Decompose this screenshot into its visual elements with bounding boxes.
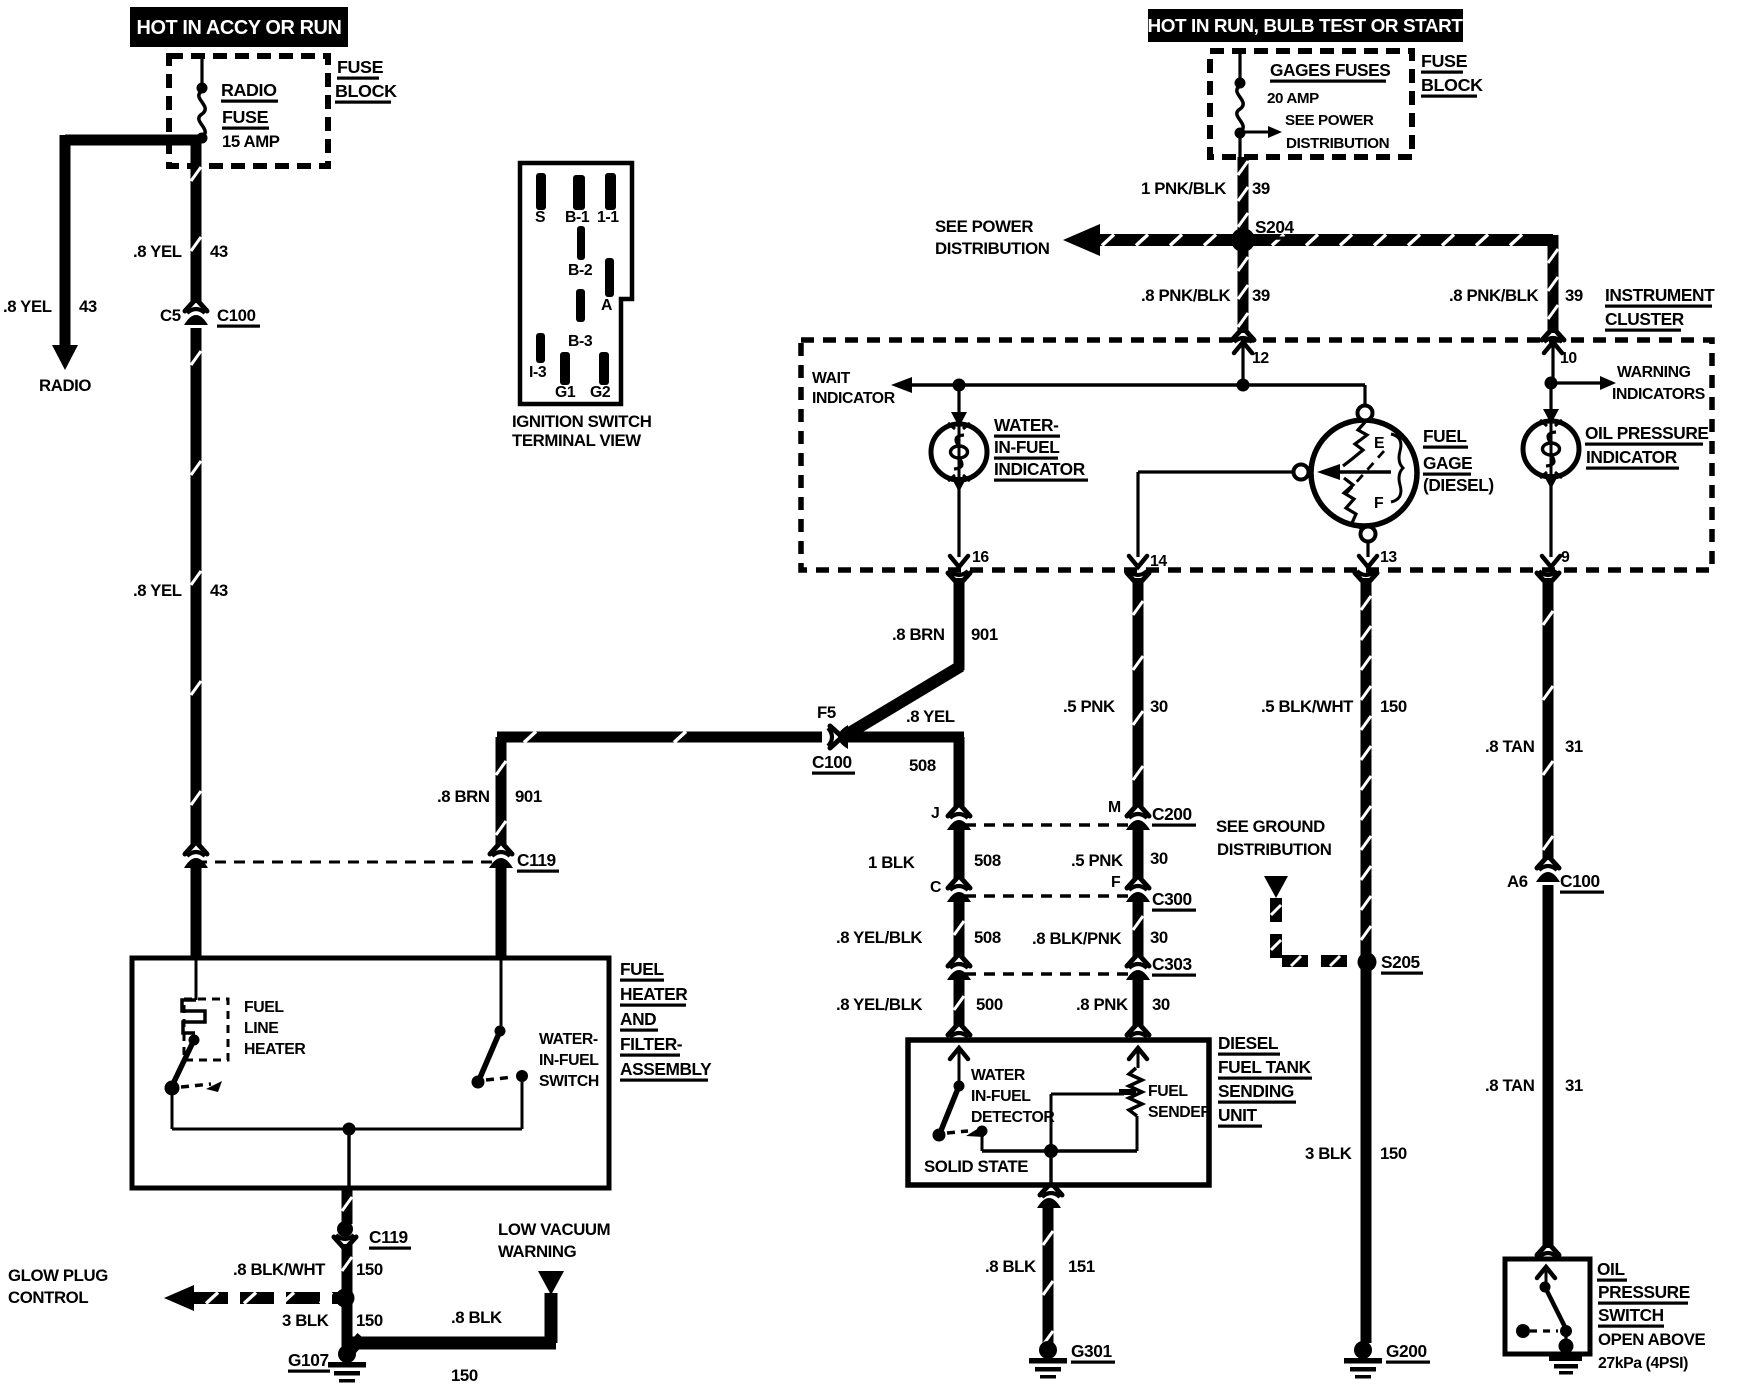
connector pin 10 at cluster (1542, 330, 1564, 340)
wire fuse feed (top) (200, 56, 203, 88)
wire oil lamp to pin 9 (1549, 477, 1552, 557)
svg-text:FUEL: FUEL (1423, 426, 1467, 446)
svg-text:LINE: LINE (244, 1020, 278, 1037)
dashed line C200 (965, 823, 1128, 826)
svg-text:500: 500 (976, 995, 1003, 1014)
svg-text:508: 508 (909, 756, 936, 775)
wire .8 BRN into heater box (496, 868, 507, 958)
svg-text:M: M (1108, 799, 1121, 816)
svg-text:SENDER: SENDER (1148, 1104, 1212, 1121)
wire 3 BLK 150 (right) (1361, 968, 1372, 1343)
svg-text:.8 BLK: .8 BLK (451, 1308, 502, 1327)
svg-text:WARNING: WARNING (1617, 364, 1691, 381)
svg-text:CONTROL: CONTROL (8, 1288, 88, 1307)
node rail-10 (1545, 377, 1558, 390)
svg-text:150: 150 (451, 1366, 478, 1385)
wire fuel gage bottom to pin 13 (1366, 541, 1369, 557)
arrow see ground distribution (1264, 876, 1288, 898)
svg-text:.8 BRN: .8 BRN (892, 625, 945, 644)
svg-text:30: 30 (1150, 849, 1168, 868)
svg-text:INDICATOR: INDICATOR (1586, 447, 1678, 467)
svg-text:30: 30 (1152, 995, 1170, 1014)
wire .8 BLK 150 (to low vacuum) (546, 1293, 557, 1338)
connector C119 left half (185, 844, 207, 854)
connector C119 (bottom) (337, 1221, 353, 1237)
svg-text:HEATER: HEATER (620, 984, 688, 1004)
svg-text:.5 BLK/WHT: .5 BLK/WHT (1261, 697, 1354, 716)
svg-text:IN-FUEL: IN-FUEL (994, 437, 1060, 457)
svg-text:43: 43 (210, 581, 228, 600)
svg-text:1-1: 1-1 (597, 209, 619, 226)
node heater bus junction (343, 1123, 356, 1136)
svg-text:F5: F5 (817, 703, 836, 722)
svg-text:1 PNK/BLK: 1 PNK/BLK (1141, 179, 1226, 198)
svg-text:WATER-: WATER- (994, 415, 1059, 435)
arrow warning indicators (1555, 381, 1602, 384)
svg-text:WARNING: WARNING (498, 1242, 577, 1261)
dashed line C300 (965, 894, 1128, 897)
svg-text:DISTRIBUTION: DISTRIBUTION (935, 239, 1050, 258)
svg-text:J: J (931, 805, 939, 822)
svg-text:(DIESEL): (DIESEL) (1423, 475, 1494, 495)
fuel sender resistor (1129, 1068, 1142, 1116)
svg-text:9: 9 (1561, 549, 1570, 566)
svg-text:FUEL: FUEL (244, 999, 284, 1016)
wire .8 PNK/BLK 39 (left drop) (1238, 246, 1249, 333)
switch arm (fuel line heater) (172, 1042, 193, 1086)
svg-text:LOW VACUUM: LOW VACUUM (498, 1220, 610, 1239)
connector C100 F5 inline (830, 726, 840, 748)
svg-text:C5: C5 (160, 306, 181, 325)
svg-text:SWITCH: SWITCH (1598, 1305, 1664, 1325)
ground (oil pressure switch) (1559, 1339, 1574, 1354)
svg-text:31: 31 (1565, 737, 1583, 756)
arrow wait indicator (891, 377, 912, 393)
splice glow plug (336, 1289, 355, 1308)
svg-text:1 BLK: 1 BLK (868, 853, 915, 872)
switch contact dashed (heater) (181, 1084, 211, 1087)
svg-text:G2: G2 (590, 384, 611, 401)
wire sender wiper loop (1050, 1094, 1053, 1151)
svg-text:SOLID STATE: SOLID STATE (924, 1157, 1028, 1176)
wire .8 BLK 151 (1043, 1206, 1054, 1343)
svg-text:C200: C200 (1152, 804, 1192, 824)
wire .8 BRN 901 (pin16 drop) (954, 578, 965, 670)
connector C5 C100 (185, 301, 207, 311)
wire cluster feed rail (905, 383, 1365, 386)
svg-text:C300: C300 (1152, 889, 1192, 909)
wire oil lamp drop (1549, 383, 1552, 421)
svg-text:FUEL: FUEL (1148, 1083, 1188, 1100)
wire heater box to C119 (342, 1188, 353, 1224)
wire lamp to pin 16 (957, 480, 960, 557)
header box HOT IN ACCY OR RUN (130, 7, 348, 47)
svg-text:.8 YEL: .8 YEL (133, 242, 182, 261)
svg-text:E: E (1374, 435, 1384, 452)
svg-text:BLOCK: BLOCK (1421, 75, 1483, 95)
switch contact dashed (water) (486, 1077, 513, 1080)
connector sending unit right entry (1127, 1025, 1149, 1035)
splice S205 (1358, 953, 1377, 972)
svg-text:HOT IN ACCY OR RUN: HOT IN ACCY OR RUN (137, 17, 342, 39)
node rail-12 (1237, 379, 1250, 392)
fuel gage bottom pin (1361, 527, 1376, 542)
svg-text:C100: C100 (812, 752, 852, 772)
svg-text:WATER: WATER (971, 1067, 1026, 1084)
wire water switch lead (500, 958, 503, 1030)
svg-text:DISTRIBUTION: DISTRIBUTION (1286, 135, 1389, 152)
node sending unit junction (1044, 1144, 1058, 1158)
connector pin 12 at cluster (1232, 330, 1254, 340)
svg-text:INDICATOR: INDICATOR (812, 390, 896, 407)
svg-text:C: C (930, 879, 941, 896)
fuel gage internals (1343, 421, 1367, 466)
svg-text:INDICATOR: INDICATOR (994, 459, 1086, 479)
svg-text:3 BLK: 3 BLK (282, 1311, 329, 1330)
svg-text:C100: C100 (1560, 871, 1600, 891)
svg-text:SWITCH: SWITCH (539, 1073, 599, 1090)
svg-text:150: 150 (1380, 1144, 1407, 1163)
wire junction to box bottom (1049, 1151, 1052, 1185)
fuel gage left pin (1294, 465, 1309, 480)
svg-text:16: 16 (972, 549, 989, 566)
svg-text:INDICATORS: INDICATORS (1612, 386, 1705, 403)
wire .8 BLK/PNK 30 (1133, 902, 1144, 956)
svg-text:.8 YEL/BLK: .8 YEL/BLK (836, 995, 922, 1014)
wire S204 bus (hatched) (1098, 234, 1553, 246)
svg-text:FUSE: FUSE (222, 107, 269, 127)
fuse block dashed box (radio fuse) (169, 56, 328, 166)
svg-text:PRESSURE: PRESSURE (1598, 1282, 1690, 1302)
svg-text:AND: AND (620, 1009, 656, 1029)
wire diagonal to C100 (846, 666, 961, 735)
svg-text:GLOW PLUG: GLOW PLUG (8, 1266, 108, 1285)
svg-text:G107: G107 (288, 1350, 329, 1370)
svg-text:I-3: I-3 (529, 364, 547, 381)
svg-text:30: 30 (1150, 697, 1168, 716)
svg-text:.8 TAN: .8 TAN (1485, 737, 1535, 756)
lamp OIL PRESSURE INDICATOR (1523, 421, 1579, 477)
svg-text:.8 PNK/BLK: .8 PNK/BLK (1141, 286, 1231, 305)
wire .8 TAN 31 upper (1543, 578, 1554, 860)
svg-text:BLOCK: BLOCK (335, 81, 397, 101)
wire 508 to J (848, 732, 964, 743)
connector F C300 (1127, 878, 1149, 888)
svg-text:G1: G1 (555, 384, 576, 401)
ground G107 (338, 1345, 356, 1363)
lamp WATER-IN-FUEL INDICATOR (931, 424, 987, 480)
connector J C200 (948, 806, 970, 816)
svg-text:WAIT: WAIT (812, 370, 851, 387)
svg-text:.8 YEL/BLK: .8 YEL/BLK (836, 928, 922, 947)
wire .5 PNK 30 upper (1133, 578, 1144, 806)
wire .5 PNK 30 mid (1133, 830, 1144, 878)
svg-text:A: A (601, 297, 612, 314)
svg-text:G200: G200 (1386, 1341, 1427, 1361)
svg-text:20 AMP: 20 AMP (1267, 90, 1319, 107)
svg-text:27kPa (4PSI): 27kPa (4PSI) (1598, 1355, 1688, 1372)
svg-text:C119: C119 (369, 1227, 408, 1247)
diesel fuel tank sending unit box (908, 1040, 1209, 1185)
svg-text:WATER-: WATER- (539, 1031, 598, 1048)
svg-text:151: 151 (1068, 1257, 1095, 1276)
svg-text:.8 PNK: .8 PNK (1076, 995, 1128, 1014)
svg-text:.8 YEL: .8 YEL (3, 297, 52, 316)
svg-text:FUSE: FUSE (337, 57, 384, 77)
connector M C200 (1127, 806, 1149, 816)
wire fuel line heater lead (195, 958, 198, 1000)
wire water switch drop (521, 1076, 524, 1129)
arrow see power distribution (small) (1245, 131, 1270, 134)
svg-text:.8 YEL: .8 YEL (133, 581, 182, 600)
svg-text:B-3: B-3 (568, 333, 593, 350)
svg-text:39: 39 (1565, 286, 1583, 305)
svg-text:FILTER-: FILTER- (620, 1034, 683, 1054)
fuse RADIO FUSE 15 AMP (197, 83, 208, 94)
svg-text:B-2: B-2 (568, 262, 593, 279)
wire .8 YEL/BLK 508 (954, 902, 965, 956)
svg-text:SEE POWER: SEE POWER (1285, 112, 1374, 129)
svg-text:GAGE: GAGE (1423, 453, 1472, 473)
wire glow plug control (hatched dashed) (194, 1292, 338, 1304)
svg-text:IGNITION SWITCH: IGNITION SWITCH (512, 412, 651, 431)
svg-text:DIESEL: DIESEL (1218, 1033, 1279, 1053)
svg-text:SEE GROUND: SEE GROUND (1216, 817, 1325, 836)
svg-text:C303: C303 (1152, 954, 1192, 974)
svg-text:30: 30 (1150, 928, 1168, 947)
svg-text:.8 PNK/BLK: .8 PNK/BLK (1449, 286, 1539, 305)
svg-text:.5 PNK: .5 PNK (1063, 697, 1115, 716)
wire .8 YEL 43 lower segment (191, 328, 202, 845)
svg-text:TERMINAL VIEW: TERMINAL VIEW (512, 431, 641, 450)
wire .8 YEL 43 upper segment (191, 140, 202, 303)
svg-text:.8 BLK/PNK: .8 BLK/PNK (1032, 929, 1122, 948)
fuel heater and filter assembly box (132, 958, 609, 1188)
svg-text:GAGES FUSES: GAGES FUSES (1270, 60, 1390, 80)
connector pin 13 (1359, 556, 1377, 567)
fuel gage top pin (1358, 406, 1373, 421)
wire see ground distribution (dashed thick) (1270, 898, 1282, 961)
svg-text:OIL: OIL (1597, 1259, 1625, 1279)
wire to radio (thick elbow) (65, 135, 200, 146)
svg-text:31: 31 (1565, 1076, 1583, 1095)
svg-text:F: F (1374, 495, 1384, 512)
svg-text:508: 508 (974, 928, 1001, 947)
svg-text:14: 14 (1150, 553, 1167, 570)
wire heater bus to box bottom (347, 1129, 350, 1188)
oil pressure switch box (1505, 1259, 1590, 1354)
svg-text:A6: A6 (1507, 872, 1528, 891)
svg-text:39: 39 (1252, 179, 1270, 198)
svg-text:DETECTOR: DETECTOR (971, 1109, 1055, 1126)
connector sending unit left entry (948, 1025, 970, 1035)
wire gages fuse feed (1238, 51, 1241, 83)
svg-text:S204: S204 (1255, 217, 1295, 237)
wire 3 BLK 150 (left) (342, 1298, 353, 1348)
svg-text:RADIO: RADIO (39, 376, 91, 395)
ignition switch terminals (536, 173, 546, 210)
wire 1 BLK 508 (954, 830, 965, 878)
wire .8 YEL into heater box (191, 868, 202, 958)
svg-text:3 BLK: 3 BLK (1305, 1144, 1352, 1163)
ground G301 (1039, 1341, 1057, 1359)
wire sender bottom (1136, 1116, 1139, 1151)
wire pin 14 to fuel gage left (1136, 472, 1139, 557)
connector pin 16 (950, 556, 968, 567)
svg-text:OIL PRESSURE: OIL PRESSURE (1585, 423, 1709, 443)
wire heater switch to bus (171, 1090, 174, 1129)
fuse block dashed box (gages fuses) (1210, 51, 1412, 157)
wire .8 BLK/WHT 150 (342, 1244, 353, 1294)
arrow to RADIO (52, 345, 78, 370)
dashed line C119 (196, 861, 499, 864)
svg-text:901: 901 (971, 625, 998, 644)
wire .8 TAN 31 lower (1543, 885, 1554, 1248)
connector G301 exit (1040, 1185, 1062, 1195)
svg-text:S205: S205 (1381, 952, 1421, 972)
connector pin 14 (1129, 556, 1147, 567)
header box HOT IN RUN BULB TEST OR START (1148, 9, 1463, 42)
svg-text:G301: G301 (1071, 1341, 1112, 1361)
instrument cluster dashed box (801, 340, 1712, 570)
fuel gage circle (1311, 420, 1417, 526)
heater element dashed box (184, 999, 228, 1060)
svg-text:13: 13 (1380, 549, 1397, 566)
svg-text:.8 YEL: .8 YEL (906, 707, 955, 726)
svg-text:HOT IN RUN, BULB TEST OR START: HOT IN RUN, BULB TEST OR START (1147, 16, 1463, 37)
svg-text:UNIT: UNIT (1218, 1105, 1258, 1125)
svg-text:12: 12 (1252, 350, 1269, 367)
wire detector to bus (981, 1131, 984, 1151)
svg-text:DISTRIBUTION: DISTRIBUTION (1217, 840, 1332, 859)
arrow glow plug control (164, 1285, 194, 1311)
svg-text:ASSEMBLY: ASSEMBLY (620, 1059, 712, 1079)
connector A6 C100 (1537, 858, 1559, 868)
svg-text:FUEL TANK: FUEL TANK (1218, 1057, 1312, 1077)
splice S204 (1231, 228, 1255, 252)
oil switch internals (1537, 1267, 1555, 1278)
ignition switch outline (520, 163, 632, 404)
fuse GAGES FUSES 20 AMP (1235, 78, 1246, 89)
svg-text:150: 150 (356, 1260, 383, 1279)
svg-text:C100: C100 (217, 306, 256, 325)
svg-text:508: 508 (974, 851, 1001, 870)
svg-text:FUSE: FUSE (1421, 51, 1468, 71)
svg-text:43: 43 (79, 297, 97, 316)
svg-text:10: 10 (1560, 350, 1577, 367)
svg-text:C119: C119 (517, 850, 556, 870)
svg-text:HEATER: HEATER (244, 1041, 306, 1058)
svg-text:B-1: B-1 (565, 209, 590, 226)
svg-text:150: 150 (356, 1311, 383, 1330)
svg-text:SENDING: SENDING (1218, 1081, 1294, 1101)
connector C119 right half (490, 844, 512, 854)
svg-text:SEE POWER: SEE POWER (935, 217, 1033, 236)
svg-text:.8 BRN: .8 BRN (437, 787, 490, 806)
wire .8 PNK 30 (1133, 980, 1144, 1026)
connector C303 right (1127, 956, 1149, 966)
svg-text:OPEN ABOVE: OPEN ABOVE (1598, 1330, 1705, 1349)
arrow low vacuum warning (538, 1271, 564, 1295)
svg-text:.8 BLK/WHT: .8 BLK/WHT (233, 1260, 326, 1279)
svg-text:F: F (1111, 874, 1121, 891)
detector contact dashed (947, 1131, 968, 1133)
wire water lamp drop (957, 385, 960, 424)
switch WATER-IN-FUEL (495, 1026, 506, 1037)
switch WATER IN-FUEL DETECTOR (954, 1081, 965, 1092)
wire 1 PNK/BLK 39 (1238, 133, 1241, 158)
wire .5 BLK/WHT 150 (hatched) (1361, 578, 1372, 955)
svg-text:43: 43 (210, 242, 228, 261)
node rail-water (953, 379, 966, 392)
svg-text:901: 901 (515, 787, 542, 806)
connector C303 left (948, 956, 970, 966)
svg-text:CLUSTER: CLUSTER (1605, 309, 1685, 329)
svg-text:150: 150 (1380, 697, 1407, 716)
svg-text:15 AMP: 15 AMP (222, 132, 280, 151)
svg-text:IN-FUEL: IN-FUEL (539, 1052, 599, 1069)
connector C C300 (948, 878, 970, 888)
svg-text:.8 BLK: .8 BLK (985, 1257, 1036, 1276)
svg-text:INSTRUMENT: INSTRUMENT (1605, 285, 1715, 305)
svg-text:RADIO: RADIO (221, 80, 277, 100)
wire 508 feed horizontal (497, 732, 822, 743)
connector pin 9 (1542, 556, 1560, 567)
wire rail to fuel gage (1363, 385, 1366, 406)
svg-text:.5 PNK: .5 PNK (1071, 851, 1123, 870)
svg-text:S: S (535, 209, 545, 226)
wire .8 YEL/BLK 500 (954, 980, 965, 1026)
dashed line C303 (965, 972, 1128, 975)
connector oil switch entry (1537, 1245, 1559, 1255)
svg-text:.8 TAN: .8 TAN (1485, 1076, 1535, 1095)
ground G200 (1354, 1341, 1372, 1359)
svg-text:IN-FUEL: IN-FUEL (971, 1088, 1031, 1105)
arrow see power distribution (big) (1063, 224, 1100, 256)
svg-text:FUEL: FUEL (620, 959, 664, 979)
heating element FUEL LINE HEATER (182, 1000, 205, 1033)
svg-text:39: 39 (1252, 286, 1270, 305)
wire .8 BRN 901 left drop (496, 737, 507, 845)
